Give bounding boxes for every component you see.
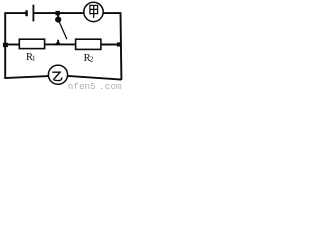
battery negative short plate [25,10,27,16]
battery positive long plate [33,5,35,22]
wire middle between R1 and R2 [44,43,75,45]
switch S fixed contact on middle wire [56,40,61,45]
svg-text:2: 2 [90,55,94,64]
meter 乙 glyph [52,72,62,80]
svg-text:com: com [105,81,122,91]
switch S blade (open) [59,22,67,39]
switch S pivot dot [55,17,61,23]
svg-text:nfen5: nfen5 [68,81,96,91]
meter 甲 (ammeter) circle [84,2,103,21]
wire top left segment [4,12,26,14]
node junction dot on right wire [117,42,122,46]
resistor R1 box [19,39,44,48]
wire top right segment [103,12,121,14]
wire middle right stub [101,44,120,46]
wire bottom left segment [4,76,48,78]
wire top middle segment [34,12,84,14]
resistor R2 box [76,39,101,49]
switch S stub from top wire [57,14,59,17]
svg-text:1: 1 [32,54,36,63]
wire left vertical [4,13,6,79]
wire middle left stub [5,44,19,46]
node junction dot on left wire [3,43,8,47]
wire right vertical [120,13,123,80]
svg-text:.: . [99,81,105,91]
node junction dot on top wire [56,11,60,15]
meter 乙 circle [48,65,67,84]
meter 甲 glyph [90,5,98,18]
wire bottom right segment [68,76,122,80]
